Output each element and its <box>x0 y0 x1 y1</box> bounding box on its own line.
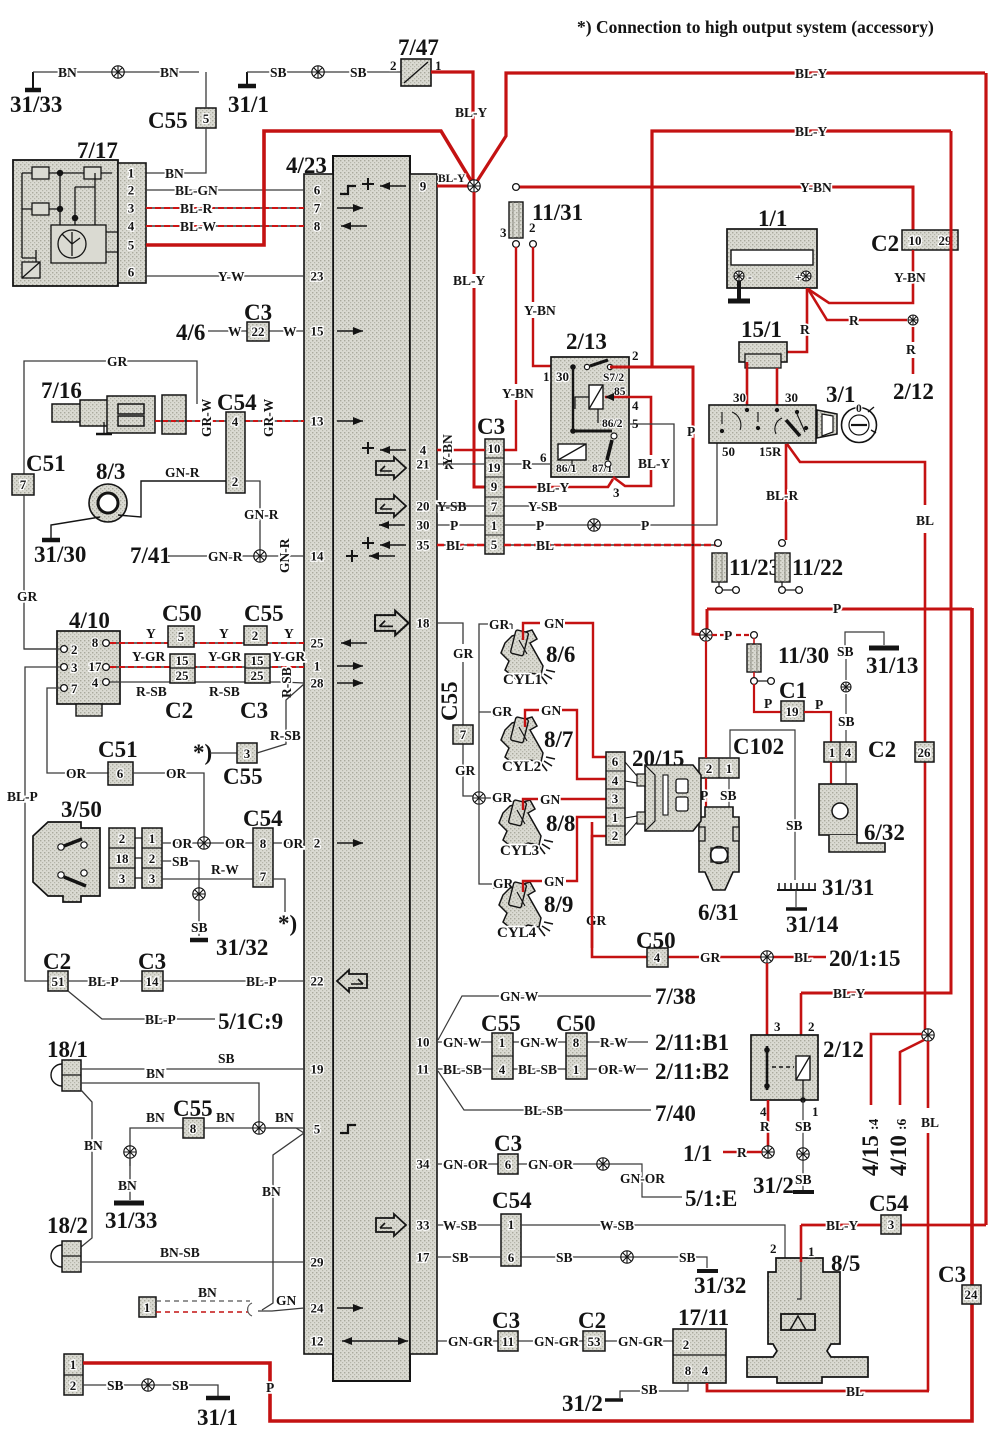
svg-text:BL: BL <box>536 538 554 553</box>
svg-text:C3: C3 <box>938 1262 966 1287</box>
svg-text:30: 30 <box>556 369 569 384</box>
svg-text:4: 4 <box>654 950 661 965</box>
svg-text:23: 23 <box>311 269 325 284</box>
GR splice <box>473 792 485 804</box>
thick BL-Y wire from 7/17:5 up and right <box>146 131 473 245</box>
svg-text:SB: SB <box>452 1250 469 1265</box>
svg-text:P: P <box>815 697 823 712</box>
svg-text:OR: OR <box>283 836 304 851</box>
svg-text::4: :4 <box>866 1119 881 1130</box>
svg-text:4: 4 <box>760 1104 767 1119</box>
svg-text:5: 5 <box>314 1122 321 1137</box>
svg-text:Y-BN: Y-BN <box>502 386 534 401</box>
svg-text:35: 35 <box>417 538 431 553</box>
7/16 ground stub <box>103 422 105 433</box>
8/3 ground wire to 31/30 <box>51 517 100 538</box>
svg-text:R-SB: R-SB <box>270 728 301 743</box>
wire R C3:19 to 2/13 pin6 <box>504 463 551 465</box>
wire GN CYL2 to 20/15:4 <box>525 710 606 779</box>
svg-text:4: 4 <box>612 773 619 788</box>
svg-text:SB: SB <box>191 920 208 935</box>
svg-text:28: 28 <box>311 676 325 691</box>
svg-text:GR: GR <box>489 617 510 632</box>
svg-text:CYL1: CYL1 <box>503 672 542 688</box>
wire BL-Y C3:9 to 2/13 pin3 <box>504 479 613 487</box>
svg-text:7: 7 <box>71 681 78 696</box>
svg-text:1: 1 <box>573 1062 580 1077</box>
wire BL-W 7/17:4 to ECU:8 <box>146 225 304 227</box>
svg-text:7/40: 7/40 <box>655 1101 696 1126</box>
svg-text:15: 15 <box>251 653 265 668</box>
wire GR-W C54:4 to ECU:13 <box>245 420 304 422</box>
svg-text:33: 33 <box>417 1218 431 1233</box>
svg-text:*): *) <box>193 740 212 765</box>
svg-text:GN-GR: GN-GR <box>448 1334 493 1349</box>
BN wire to ground 31/33 <box>129 1158 131 1200</box>
svg-text:1: 1 <box>70 1357 77 1372</box>
svg-text:11: 11 <box>417 1062 429 1077</box>
wire BN-SB 18/2 to ECU:29 <box>81 1261 304 1263</box>
svg-text:4: 4 <box>845 745 852 760</box>
svg-text:GN-R: GN-R <box>165 465 200 480</box>
svg-text:SB: SB <box>270 65 287 80</box>
svg-text:GR-W: GR-W <box>199 398 214 437</box>
svg-text:BL-P: BL-P <box>246 974 277 989</box>
svg-text:5: 5 <box>128 238 135 253</box>
svg-text:18/1: 18/1 <box>47 1037 88 1062</box>
wire splice down to relay 2/12 pin3 <box>766 963 769 1035</box>
GR loop wire from C51 area to 7/16 <box>24 361 197 474</box>
svg-text:25: 25 <box>251 668 265 683</box>
svg-text:BL-P: BL-P <box>7 789 38 804</box>
svg-text:1: 1 <box>144 1300 151 1315</box>
wire SB ECU:17 row to ground 31/32 <box>438 1257 707 1268</box>
svg-text:31/31: 31/31 <box>822 875 874 900</box>
svg-text:19: 19 <box>786 704 800 719</box>
svg-text:GR: GR <box>700 950 721 965</box>
svg-text:C54: C54 <box>492 1188 532 1213</box>
svg-text:24: 24 <box>311 1301 325 1316</box>
svg-text:P: P <box>833 601 841 616</box>
SB wire down to 1|4 box pin4 <box>845 659 847 742</box>
wire GN-OR ECU:34 row <box>438 1164 682 1197</box>
wire Y-SB ECU:20 to C3:7 <box>437 505 485 507</box>
wires 15/1 down to switch 3/1 <box>747 362 777 405</box>
svg-text:SB: SB <box>679 1250 696 1265</box>
BL-Y row y993 <box>801 131 951 993</box>
svg-text:1: 1 <box>128 166 135 181</box>
svg-text:SB: SB <box>838 714 855 729</box>
svg-text:15R: 15R <box>759 444 782 459</box>
svg-text:BL-Y: BL-Y <box>833 986 866 1001</box>
svg-text:2: 2 <box>70 1378 77 1393</box>
ground 31/13 <box>845 632 884 656</box>
svg-text:W-SB: W-SB <box>600 1218 634 1233</box>
svg-text:SB: SB <box>350 65 367 80</box>
svg-text:BN: BN <box>165 166 184 181</box>
svg-text:30: 30 <box>785 390 798 405</box>
svg-text:GR-W: GR-W <box>261 398 276 437</box>
wire GN CYL4 to 20/15:1 <box>523 817 606 892</box>
injector 8/9 (CYL4) <box>499 882 553 936</box>
svg-text:3: 3 <box>119 871 126 886</box>
svg-text:8/8: 8/8 <box>546 811 575 836</box>
3/1 key symbol <box>842 408 877 443</box>
svg-text:3: 3 <box>612 791 619 806</box>
svg-text:4: 4 <box>702 1363 709 1378</box>
P splice <box>700 629 712 641</box>
svg-text:W: W <box>283 324 297 339</box>
svg-text:4: 4 <box>128 219 135 234</box>
svg-text:BL-Y: BL-Y <box>795 66 828 81</box>
BN wire branch to ECU:5 and down <box>265 1128 304 1133</box>
svg-text:BN: BN <box>262 1184 281 1199</box>
svg-text:R-SB: R-SB <box>279 667 294 698</box>
svg-text:24: 24 <box>965 1287 979 1302</box>
svg-text:8: 8 <box>573 1035 580 1050</box>
svg-text:C102: C102 <box>733 734 784 759</box>
svg-text:7/47: 7/47 <box>398 35 439 60</box>
splice BN <box>253 1122 265 1134</box>
BL-Y junction splice <box>468 180 480 192</box>
svg-text:BL: BL <box>794 950 812 965</box>
svg-text:6: 6 <box>128 265 135 280</box>
svg-text:Y-BN: Y-BN <box>440 434 455 466</box>
wire BL-Y into 8/5 pin1 <box>800 1225 803 1262</box>
wire GN to ECU:24 <box>258 1308 304 1311</box>
svg-text:7: 7 <box>20 477 27 492</box>
svg-text:GN-GR: GN-GR <box>534 1334 579 1349</box>
wire SB from 31/1 to 7/47 pin2 <box>247 71 401 73</box>
svg-text:Y-GR: Y-GR <box>208 649 242 664</box>
svg-text:7: 7 <box>260 869 267 884</box>
svg-text:P: P <box>450 518 458 533</box>
svg-text:GN-GR: GN-GR <box>618 1334 663 1349</box>
svg-text:2: 2 <box>706 761 713 776</box>
wire from 4/10:2 to GR vertical <box>24 648 60 650</box>
splice OR junction <box>198 837 210 849</box>
svg-text:2: 2 <box>390 58 397 73</box>
svg-text:4/10: 4/10 <box>69 608 110 633</box>
wire Y-SB C3:7 to 2/13 pin5 <box>504 424 674 506</box>
svg-text:3: 3 <box>774 1019 781 1034</box>
svg-text:3: 3 <box>244 746 251 761</box>
svg-text:7: 7 <box>314 201 321 216</box>
svg-text:8/3: 8/3 <box>96 459 125 484</box>
wire P C1:19 to 1|4 box pin1 <box>804 712 831 742</box>
svg-text:2/11:B1: 2/11:B1 <box>655 1030 729 1055</box>
svg-text:2: 2 <box>632 348 639 363</box>
svg-text:BL-SB: BL-SB <box>518 1062 557 1077</box>
svg-text:BL-R: BL-R <box>180 201 213 216</box>
svg-text:BL-P: BL-P <box>88 974 119 989</box>
svg-text:SB: SB <box>795 1172 812 1187</box>
wire P ECU:30 through C3:1 to switch 50 <box>437 443 717 525</box>
svg-text:SB: SB <box>641 1382 658 1397</box>
wire BL from 3/1 to right edge <box>787 444 925 1035</box>
svg-text:11/30: 11/30 <box>778 643 829 668</box>
svg-text:4/10: 4/10 <box>886 1135 911 1176</box>
svg-text:R-W: R-W <box>211 862 239 877</box>
svg-text:14: 14 <box>146 974 160 989</box>
svg-text:GN: GN <box>540 792 561 807</box>
svg-text:3: 3 <box>149 871 156 886</box>
svg-text:4: 4 <box>232 414 239 429</box>
wire GR ECU:18 down to injector splice <box>437 623 473 796</box>
svg-text:7: 7 <box>491 499 498 514</box>
svg-text:11: 11 <box>502 1334 514 1349</box>
svg-text:BL: BL <box>446 538 464 553</box>
svg-text:C3: C3 <box>477 414 505 439</box>
svg-text:1/1: 1/1 <box>683 1141 712 1166</box>
svg-text:17: 17 <box>89 659 103 674</box>
wire BL-P branch to 5/1C:9 <box>68 991 215 1019</box>
relay 6/32 <box>819 784 857 835</box>
svg-text:4: 4 <box>420 443 427 458</box>
svg-text:34: 34 <box>417 1157 431 1172</box>
svg-text:30: 30 <box>417 518 430 533</box>
svg-text:26: 26 <box>918 745 932 760</box>
wire Y 4/10:8 to ECU:25 <box>110 642 304 644</box>
svg-text:31/1: 31/1 <box>197 1405 238 1430</box>
svg-text:Y-W: Y-W <box>218 269 245 284</box>
svg-text:31/1: 31/1 <box>228 92 269 117</box>
svg-text:11/31: 11/31 <box>532 200 583 225</box>
wire GR 20/15:2 down to C50:4 <box>592 836 606 948</box>
wire P splice to fuse 11/30 <box>712 634 750 636</box>
wire BN from C55:5 to 7/17 pin1 <box>146 72 206 173</box>
svg-text:C2: C2 <box>578 1308 606 1333</box>
svg-text:SB: SB <box>107 1378 124 1393</box>
svg-text:GN: GN <box>544 874 565 889</box>
svg-text:OR: OR <box>172 836 193 851</box>
svg-text:1: 1 <box>726 761 733 776</box>
wire R-W 3/50:3 to C54:7 <box>162 878 253 880</box>
injector 8/7 (CYL2) <box>501 717 555 771</box>
svg-text:8/6: 8/6 <box>546 642 575 667</box>
injector 8/8 (CYL3) <box>499 800 553 854</box>
svg-text:P: P <box>641 518 649 533</box>
svg-text:1/1: 1/1 <box>758 206 787 231</box>
svg-text:C2: C2 <box>165 698 193 723</box>
svg-text:5: 5 <box>178 629 185 644</box>
svg-text:BN: BN <box>146 1066 165 1081</box>
svg-text:BL-W: BL-W <box>180 219 217 234</box>
svg-text:7/41: 7/41 <box>130 543 171 568</box>
svg-text:*): *) <box>278 911 297 936</box>
svg-text:1: 1 <box>314 659 321 674</box>
svg-text:GR: GR <box>107 354 128 369</box>
svg-text:BN: BN <box>84 1138 103 1153</box>
BL-Y bottom row through C54:3 <box>801 1224 986 1227</box>
svg-text:15: 15 <box>311 324 325 339</box>
svg-text:BL-Y: BL-Y <box>537 480 570 495</box>
svg-text:1: 1 <box>499 1035 506 1050</box>
svg-text:10: 10 <box>417 1035 430 1050</box>
svg-text:2: 2 <box>808 1019 815 1034</box>
svg-text:BL-Y: BL-Y <box>638 456 671 471</box>
svg-text:BL-GN: BL-GN <box>175 183 218 198</box>
wire P C102:2 to pump <box>705 641 707 850</box>
svg-text:BL: BL <box>921 1115 939 1130</box>
wire 85/pin4 jumper to pin3 <box>605 397 651 486</box>
svg-text:SB: SB <box>837 644 854 659</box>
connector 1|4 <box>824 742 856 762</box>
ground 31/1 (top) <box>246 72 248 84</box>
wire to 6/32 from 1|4 <box>830 762 832 806</box>
svg-text:CYL3: CYL3 <box>500 843 539 859</box>
svg-text:31/33: 31/33 <box>105 1208 157 1233</box>
splice on SB wire <box>312 66 324 78</box>
svg-text:31/32: 31/32 <box>694 1273 746 1298</box>
fuse 11/22 <box>779 540 786 547</box>
svg-text:Y: Y <box>284 626 294 641</box>
svg-text:SB: SB <box>786 818 803 833</box>
svg-text:R-SB: R-SB <box>209 684 240 699</box>
svg-text:12: 12 <box>311 1334 324 1349</box>
svg-text:*) Connection to high output s: *) Connection to high output system (acc… <box>577 17 934 37</box>
svg-text:P: P <box>687 424 695 439</box>
3/50 mating column (1,2,3) <box>142 828 162 888</box>
BL splice to stubs 4/15:4 and 4/10:6 <box>922 1029 934 1041</box>
svg-text:BN: BN <box>146 1110 165 1125</box>
svg-text:P: P <box>536 518 544 533</box>
svg-text:1: 1 <box>808 1244 815 1259</box>
svg-text:31/33: 31/33 <box>10 92 62 117</box>
svg-text:6: 6 <box>612 754 619 769</box>
wire Y-W 7/17:6 to ECU:23 <box>146 275 304 277</box>
GR bus to cylinders <box>479 624 512 889</box>
svg-text:BN: BN <box>198 1285 217 1300</box>
svg-text:31/30: 31/30 <box>34 542 86 567</box>
svg-text:4/15: 4/15 <box>858 1135 883 1176</box>
4/10 terminals <box>61 646 68 653</box>
svg-text:C55: C55 <box>148 108 188 133</box>
svg-text:R: R <box>737 1145 747 1160</box>
svg-text:BL-Y: BL-Y <box>438 173 466 185</box>
splice BN left branch <box>124 1146 136 1158</box>
svg-text:18: 18 <box>417 616 431 631</box>
dashed BN wire from box 1 <box>156 1300 250 1302</box>
svg-text:4: 4 <box>92 675 99 690</box>
svg-text:GR: GR <box>492 790 513 805</box>
svg-text:2: 2 <box>71 642 78 657</box>
battery ground post <box>737 281 741 300</box>
svg-text:BN: BN <box>216 1110 235 1125</box>
wire BN from 31/33 to C55:5 <box>33 71 199 73</box>
svg-text:C54: C54 <box>869 1191 909 1216</box>
svg-text:3: 3 <box>71 660 78 675</box>
svg-text:6/31: 6/31 <box>698 900 739 925</box>
svg-text:R: R <box>800 322 810 337</box>
svg-text:31/2: 31/2 <box>753 1173 794 1198</box>
svg-text:S7/2: S7/2 <box>603 372 624 384</box>
injector 8/6 (CYL1) <box>501 630 555 684</box>
connector box 1 (dashed harness) <box>139 1297 156 1317</box>
svg-text:CYL2: CYL2 <box>502 759 541 775</box>
svg-text:Y-BN: Y-BN <box>524 303 556 318</box>
wire Y-BN fuse to C3:10 <box>504 247 516 450</box>
svg-text:25: 25 <box>176 668 190 683</box>
wire BL-SB 7/40 row <box>438 1071 651 1110</box>
wire R-SB 4/10:4 to ECU:28 <box>110 682 304 683</box>
svg-text:Y: Y <box>219 626 229 641</box>
svg-text:2: 2 <box>683 1337 690 1352</box>
svg-text:R: R <box>522 457 532 472</box>
svg-text:P: P <box>764 696 772 711</box>
svg-text:3: 3 <box>613 485 620 500</box>
svg-text:6: 6 <box>508 1250 515 1265</box>
wire BL ECU:35 through C3:5 to fuse 11/23 <box>437 544 718 546</box>
svg-text:OR: OR <box>225 836 246 851</box>
svg-text:P: P <box>266 1380 274 1395</box>
dashed red wire from box 1 <box>156 1311 248 1313</box>
ECU bar left pin column <box>304 174 333 1354</box>
svg-text:BN: BN <box>118 1178 137 1193</box>
svg-text:BL-SB: BL-SB <box>524 1103 563 1118</box>
wire BL-R 3/1 down to fuse 11/22 <box>785 444 788 540</box>
svg-text:GN-OR: GN-OR <box>528 1157 573 1172</box>
svg-text:GN: GN <box>276 1293 297 1308</box>
svg-text:GN-OR: GN-OR <box>443 1157 488 1172</box>
BN row with C55:8 <box>130 1128 304 1166</box>
svg-text:GN: GN <box>544 616 565 631</box>
svg-text:3: 3 <box>500 225 507 240</box>
7/17 internal circuit <box>22 167 118 278</box>
svg-text:5/1:E: 5/1:E <box>685 1186 737 1211</box>
svg-text:7/16: 7/16 <box>41 378 82 403</box>
svg-text:Y-GR: Y-GR <box>132 649 166 664</box>
svg-text:8/9: 8/9 <box>544 892 573 917</box>
svg-text:5: 5 <box>491 537 498 552</box>
ECU connector bar 4/23 inner channel <box>333 156 410 1381</box>
svg-text:CYL4: CYL4 <box>497 925 537 941</box>
svg-text:R-SB: R-SB <box>136 684 167 699</box>
svg-text:1: 1 <box>543 369 550 384</box>
svg-text:18: 18 <box>116 851 130 866</box>
wire Y-GR 4/10:17 to ECU:1 <box>110 666 304 668</box>
svg-text:11/22: 11/22 <box>792 555 843 580</box>
svg-text:1: 1 <box>812 1104 819 1119</box>
connector C55 pins 15/25 <box>245 654 270 683</box>
svg-text:BN: BN <box>275 1110 294 1125</box>
2/13 internals <box>570 364 576 370</box>
wire R battery + to splice and 2/12 <box>808 289 907 320</box>
svg-text:18/2: 18/2 <box>47 1213 88 1238</box>
wire BL 17/11:4 along bottom to right <box>707 1383 929 1391</box>
svg-text:C51: C51 <box>26 451 66 476</box>
wire R 2/12:4 to 1/1 row <box>767 1100 770 1158</box>
wire OR from C51:6 to OR splice <box>133 773 204 843</box>
svg-text:22: 22 <box>311 974 324 989</box>
svg-text:17: 17 <box>417 1250 431 1265</box>
svg-text:BL-Y: BL-Y <box>795 124 828 139</box>
svg-text:W: W <box>228 324 242 339</box>
svg-text:86/1: 86/1 <box>556 463 577 475</box>
svg-text:2/13: 2/13 <box>566 329 607 354</box>
svg-text:8: 8 <box>190 1121 197 1136</box>
svg-text:53: 53 <box>588 1334 602 1349</box>
fuel pump 6/31 <box>699 807 739 890</box>
wire BL-Y from 7/47:1 down to junction <box>431 72 473 186</box>
svg-text:30: 30 <box>733 390 746 405</box>
svg-text:25: 25 <box>311 636 325 651</box>
wire 2/13 pin2 row to P vertical <box>610 367 706 635</box>
svg-text:Y-BN: Y-BN <box>894 270 926 285</box>
svg-text:8: 8 <box>260 836 267 851</box>
wire R battery + down to 15/1 <box>787 288 807 352</box>
svg-text:BL-Y: BL-Y <box>455 105 488 120</box>
